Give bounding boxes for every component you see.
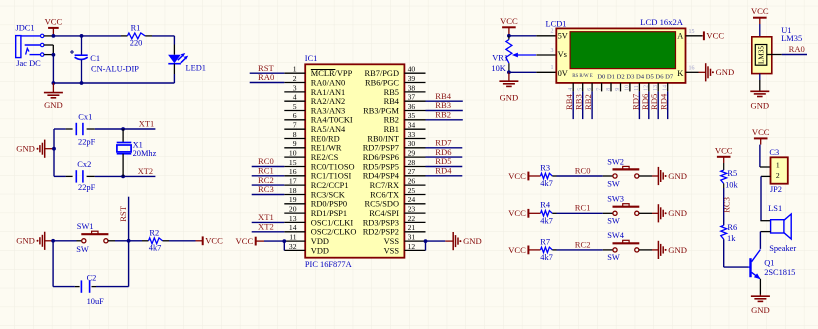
label RB2 net LCD [583,94,593,110]
wire LCD RD6 [648,91,650,119]
transistor Q1 2SC1815 [748,250,761,280]
pin 26 RC7/RX [370,177,426,191]
pin JP2 1 [760,166,771,168]
svg-text:GND: GND [463,236,482,246]
resistor R6 [721,225,727,239]
svg-text:Vs: Vs [558,50,567,59]
label RST net [118,205,128,222]
svg-text:VCC: VCC [508,208,526,218]
label RC0 net row [575,165,591,175]
svg-text:1k: 1k [727,234,736,243]
svg-text:17: 17 [289,177,297,186]
wire LCD RD7 [638,91,640,119]
svg-text:11: 11 [634,85,640,91]
wire net RD5 from IC [426,166,463,168]
svg-text:C3: C3 [769,148,779,157]
svg-text:RA3/AN3: RA3/AN3 [311,106,345,115]
svg-text:5: 5 [578,88,584,91]
svg-text:GND: GND [500,93,519,103]
label IC1 [305,54,318,63]
svg-text:RA0: RA0 [789,44,805,54]
pin jack-3 [44,54,54,56]
wire node to R2 [129,240,142,242]
svg-text:18: 18 [289,186,297,195]
svg-text:RE2/CS: RE2/CS [311,153,339,162]
label RD4 net IC-right [435,166,452,176]
wire LCD RB4 [572,91,574,119]
label XT2 net IC-left [258,222,274,232]
label SW value SW1 [76,245,89,254]
svg-text:4k7: 4k7 [540,179,553,188]
svg-text:RD1/PSP1: RD1/PSP1 [311,209,347,218]
pin 8 RE0/RD [284,130,339,144]
svg-text:19: 19 [289,195,297,204]
pin 1 MCLR/VPP [284,65,352,79]
potentiometer VR1 [506,36,536,73]
label RC2 net row [575,239,591,249]
label RC0 net IC-left [258,156,274,166]
pin 38 RB5 [384,83,426,97]
svg-text:34: 34 [408,121,416,130]
svg-text:22pF: 22pF [78,183,96,192]
resistor R4 [541,211,557,216]
crystal X1 [117,129,132,176]
wire LED to bottom bus [173,74,175,83]
pin 32 VDD [284,242,329,256]
svg-text:RB2: RB2 [435,110,451,120]
svg-text:4k7: 4k7 [540,253,553,262]
label 1k R6 [727,234,736,243]
svg-text:RB7/PGD: RB7/PGD [365,69,399,78]
label X1 [133,140,143,149]
pin SW3 left [603,212,613,214]
node C1 top [80,34,84,38]
label SW value SW4 [607,253,620,262]
label RD6 net LCD [640,93,650,110]
svg-text:RB5: RB5 [384,88,399,97]
svg-text:6: 6 [293,111,297,120]
svg-text:R2: R2 [149,228,159,237]
wire speaker to collector [759,232,761,249]
svg-text:VCC: VCC [752,127,770,137]
svg-text:RD4: RD4 [435,166,452,176]
ground GND LM35 [750,91,769,110]
pin 27 RD4/PSP4 [363,167,426,181]
wire pin31 to GND [426,240,446,242]
label Jac DC [16,59,41,68]
label SW3 [607,195,624,204]
label LED1 [186,64,206,73]
svg-text:VCC: VCC [500,16,518,26]
switch SW2 [613,166,640,178]
pin 25 RC6/TX [370,186,425,200]
svg-text:11: 11 [289,233,297,242]
svg-text:JDC1: JDC1 [16,24,35,33]
svg-text:12: 12 [408,242,416,251]
label JDC1 [16,24,35,33]
node VR1 bottom junction [507,70,511,74]
wire R1 to LED [152,36,174,45]
svg-text:RB1: RB1 [384,125,399,134]
ic U1 PIC16F877A body [305,64,404,257]
label SW value SW2 [607,179,620,188]
svg-text:SW: SW [76,245,89,254]
svg-text:31: 31 [408,233,416,242]
wire VCC to pin11 [264,240,284,242]
svg-text:36: 36 [408,102,416,111]
connector JDC1 DC jack [16,34,44,57]
power VCC LCD contrast [500,16,518,36]
svg-text:RD3/PSP3: RD3/PSP3 [363,218,399,227]
label 20Mhz [133,149,157,158]
label R1 [131,23,141,32]
label RB4 net IC-right [435,91,451,101]
svg-text:10: 10 [625,85,631,91]
svg-text:XT2: XT2 [258,222,274,232]
svg-text:RD4/PSP4: RD4/PSP4 [363,172,400,181]
ground GND reset [16,232,53,250]
label RB3 net IC-right [435,100,451,110]
svg-text:28: 28 [408,158,416,167]
header JP2 body [771,157,788,183]
svg-text:RC5/SDO: RC5/SDO [365,200,399,209]
power VCC LM35 [751,6,769,24]
svg-text:220: 220 [130,39,143,48]
svg-text:SW: SW [607,253,620,262]
svg-text:K: K [677,69,683,78]
label 22pF Cx2 [78,183,96,192]
svg-text:RD4: RD4 [659,93,669,110]
wire pin11 to pin32 [283,241,285,250]
wire Cx1 to XT1 [95,128,156,130]
svg-text:22: 22 [408,214,416,223]
power VCC input [45,16,63,36]
svg-text:RB3/PGM: RB3/PGM [363,106,399,115]
svg-text:RST: RST [118,205,128,222]
svg-text:VCC: VCC [45,16,63,26]
label 220 [130,39,143,48]
svg-text:SW: SW [607,179,620,188]
svg-text:OSC1/CLKI: OSC1/CLKI [311,218,354,227]
power VCC SW2 row [508,171,540,181]
pin 3 RA1/AN1 [284,83,345,97]
svg-text:8: 8 [606,88,612,91]
svg-text:10: 10 [289,149,297,158]
pin 12 VSS [384,242,426,256]
pin speaker 2 [760,231,770,233]
svg-text:VCC: VCC [508,171,526,181]
svg-text:23: 23 [408,205,416,214]
svg-text:RB2: RB2 [583,94,593,110]
svg-text:12: 12 [644,85,650,91]
ground GND IC [445,232,481,250]
svg-text:14: 14 [663,85,669,91]
label XT1 net IC-left [258,212,274,222]
label 4k7 R7 [540,253,553,262]
pin LCD A [686,29,703,36]
svg-text:2SC1815: 2SC1815 [764,268,795,277]
label 4k7 R2 [149,243,162,252]
led LED1 [168,45,188,75]
label RC3 net [722,197,732,213]
label D0-D7 [597,74,674,81]
svg-text:4k7: 4k7 [540,216,553,225]
label 2SC1815 [764,268,795,277]
power VCC R5 [715,145,733,163]
svg-text:XT1: XT1 [139,119,154,128]
svg-text:27: 27 [408,167,416,176]
pin 23 RC4/SPI [369,205,425,219]
svg-text:14: 14 [289,223,297,232]
svg-text:RB0/INT: RB0/INT [367,134,399,143]
svg-text:29: 29 [408,149,416,158]
pin 19 RD0/PSP0 [284,195,347,209]
wire jack down [52,55,54,83]
svg-text:33: 33 [408,130,416,139]
wire net RC3 to IC [252,194,285,196]
capacitor C2 [75,280,96,292]
wire VCC to JP2 [759,145,761,167]
svg-text:VCC: VCC [751,6,769,16]
pin SW2 right [639,175,652,177]
svg-text:IC1: IC1 [305,54,318,63]
svg-text:Q1: Q1 [764,258,774,267]
svg-text:2: 2 [551,29,554,35]
switch SW3 [613,204,640,216]
label 4k7 R4 [540,216,553,225]
speaker LS1 body [771,214,792,239]
svg-text:RA1/AN1: RA1/AN1 [311,88,345,97]
svg-text:RC3: RC3 [722,197,732,213]
wire R6 to base [724,239,748,267]
capacitor Cx1 [66,123,95,135]
wire LCD RD5 [657,91,659,119]
svg-text:10K: 10K [491,64,505,73]
svg-text:R6: R6 [727,223,737,232]
svg-text:2: 2 [776,171,780,180]
pin 28 RD5/PSP5 [363,158,426,172]
label RB3 net LCD [574,94,584,110]
svg-text:VCC: VCC [205,236,223,246]
svg-text:20Mhz: 20Mhz [133,149,157,158]
svg-text:RC1: RC1 [575,203,591,213]
label LCD 16x2A [640,17,684,27]
node pin11 junction [282,239,286,243]
pin 20 RD1/PSP1 [284,205,347,219]
label 4k7 R3 [540,179,553,188]
capacitor C1 polarized [70,36,88,83]
svg-text:RE1/WR: RE1/WR [311,144,342,153]
pin 16 RC1/T1OSI [284,167,351,181]
svg-text:10uF: 10uF [87,297,105,306]
svg-text:SW4: SW4 [607,231,625,240]
svg-text:RE0/RD: RE0/RD [311,134,340,143]
wire net RD7 from IC [426,147,463,149]
svg-text:37: 37 [408,93,416,102]
svg-text:Cx1: Cx1 [78,112,92,121]
svg-text:16: 16 [289,167,297,176]
wire RC2 row [557,249,603,251]
wire net XT2 to IC [252,231,285,233]
label C3 [769,148,779,157]
wire net RC0 to IC [252,166,285,168]
svg-text:4: 4 [293,93,297,102]
pin LCD 10 [625,83,631,92]
resistor R3 [541,173,557,178]
svg-text:R5: R5 [727,169,737,178]
svg-text:GND: GND [16,236,35,246]
resistor R1 [121,33,152,39]
svg-text:13: 13 [289,214,297,223]
label 10uF [87,297,105,306]
wire crystal left rail [53,129,55,176]
svg-text:RC1/T1OSI: RC1/T1OSI [311,172,352,181]
pin jack-1 [44,35,54,37]
label LM35 [781,34,802,43]
pin name K [677,69,683,78]
pin speaker 1 [760,220,770,222]
pin 5 RA3/AN3 [284,102,345,116]
pin SW1 left [77,240,82,242]
label 10K VR1 [491,64,505,73]
pin 22 RD3/PSP3 [363,214,426,228]
svg-text:RB4: RB4 [384,97,400,106]
ground GND power input [44,83,63,110]
svg-text:GND: GND [44,100,63,110]
pin 6 RA4/T0CKI [284,111,353,125]
svg-text:R3: R3 [540,163,550,172]
label Cx1 [78,112,92,121]
svg-text:16: 16 [689,66,695,72]
pin LM35 gnd [759,74,761,92]
svg-text:VDD: VDD [311,237,329,246]
pin 11 VDD [284,233,329,247]
svg-text:GND: GND [668,245,687,255]
wire net RST to IC [250,72,285,74]
svg-text:RS R/W E: RS R/W E [572,74,593,79]
resistor R2 [142,238,169,244]
svg-text:39: 39 [408,74,416,83]
ground GND VR1 [499,72,518,102]
svg-text:RA0/AN0: RA0/AN0 [311,78,345,87]
pin 4 RA2/AN2 [284,93,345,107]
svg-text:Speaker: Speaker [769,244,796,253]
node jack bottom junction [52,53,56,57]
svg-text:1: 1 [293,65,297,74]
svg-text:GND: GND [750,100,769,110]
svg-text:38: 38 [408,83,416,92]
ground GND crystal [16,140,54,158]
label R5 [727,169,737,178]
wire top bus [53,35,121,37]
wire C2 left leg [53,241,75,287]
svg-text:GND: GND [16,144,35,154]
pin LCD K [686,66,699,73]
svg-text:5: 5 [293,102,297,111]
svg-text:VCC: VCC [236,236,254,246]
label JP2 [770,185,782,194]
svg-text:GND: GND [751,305,770,315]
svg-text:25: 25 [408,186,416,195]
pin 24 RC5/SDO [365,195,426,209]
wire net RD6 from IC [426,156,463,158]
label LS1 [768,204,782,213]
pin LCD 9 [615,83,621,92]
label R3 [540,163,550,172]
svg-text:RB2: RB2 [384,116,399,125]
svg-text:D0 D1 D2 D3 D4 D5 D6 D7: D0 D1 D2 D3 D4 D5 D6 D7 [597,74,674,81]
svg-text:15: 15 [689,29,695,35]
svg-text:10k: 10k [725,181,738,190]
pin 33 RB0/INT [367,130,425,144]
wire RA0 out [782,54,807,56]
svg-text:24: 24 [408,195,416,204]
pin name 5V [558,32,568,41]
svg-text:R7: R7 [540,237,550,246]
node X1 bottom [121,175,125,179]
svg-text:3: 3 [293,83,297,92]
wire JP2 to speaker [760,176,762,220]
svg-text:5V: 5V [558,32,568,41]
wire Cx1 row left [54,128,66,130]
svg-text:15: 15 [289,158,297,167]
pin LCD Vs [536,48,556,55]
label RS R/W E [572,74,593,79]
wire net RA0 to IC [250,82,285,84]
wire LCD RD4 [667,91,669,119]
svg-text:RD0/PSP0: RD0/PSP0 [311,200,347,209]
label SW2 [607,157,624,166]
wire C2 right leg [96,241,129,287]
wire net RB2 from IC [426,119,463,121]
node RST junction [127,239,131,243]
node reset gnd junction [51,239,55,243]
label RA0 net IC-left [258,72,274,82]
lcd LCD1 body [556,28,685,83]
svg-text:VDD: VDD [311,246,329,255]
node VR1 top junction [507,34,511,38]
svg-text:R1: R1 [131,23,141,32]
power VCC reset [196,236,224,246]
svg-text:7: 7 [596,88,602,91]
node C1 bottom [80,81,84,85]
svg-text:RC2: RC2 [575,239,591,249]
svg-text:2: 2 [293,74,297,83]
svg-text:13: 13 [653,85,659,91]
pin 21 RD2/PSP2 [363,223,426,237]
svg-text:VR1: VR1 [492,53,508,62]
pin 40 RB7/PGD [365,65,426,79]
label 10k R5 [725,181,738,190]
label CN-ALU-DIP [91,64,139,73]
pin 36 RB3/PGM [363,102,425,116]
pin LCD 5 [578,83,584,92]
label LCD1 [546,19,567,28]
svg-text:Jac DC: Jac DC [16,59,41,68]
pin name 0V [558,69,568,78]
wire net RD4 from IC [426,175,463,177]
svg-text:RC0/T1OSO: RC0/T1OSO [311,162,355,171]
pin 17 RC2/CCP1 [284,177,348,191]
svg-text:1: 1 [776,160,780,169]
label XT1 net [139,119,154,128]
switch SW1 [81,231,108,243]
svg-text:LM35: LM35 [781,34,802,43]
svg-text:RA4/T0CKI: RA4/T0CKI [311,116,353,125]
wire pin31 to pin12 [425,241,427,250]
svg-text:32: 32 [289,242,297,251]
label RST net IC-left [258,63,275,73]
